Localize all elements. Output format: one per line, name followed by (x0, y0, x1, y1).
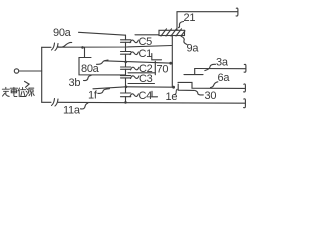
svg-text:C3: C3 (139, 73, 153, 85)
svg-text:3b: 3b (69, 77, 81, 89)
svg-text:11a: 11a (63, 105, 81, 117)
svg-text:C5: C5 (139, 36, 153, 48)
svg-text:90a: 90a (53, 27, 72, 39)
svg-text:30: 30 (205, 90, 217, 102)
svg-text:3a: 3a (216, 56, 229, 68)
svg-text:6a: 6a (218, 72, 231, 84)
svg-text:21: 21 (184, 12, 196, 24)
svg-text:1f: 1f (88, 90, 98, 102)
svg-text:C1: C1 (139, 48, 153, 60)
svg-text:80a: 80a (81, 63, 100, 75)
svg-text:C4: C4 (139, 90, 153, 102)
svg-text:9a: 9a (187, 43, 200, 55)
svg-text:1e: 1e (166, 91, 178, 103)
svg-text:70: 70 (157, 64, 169, 76)
